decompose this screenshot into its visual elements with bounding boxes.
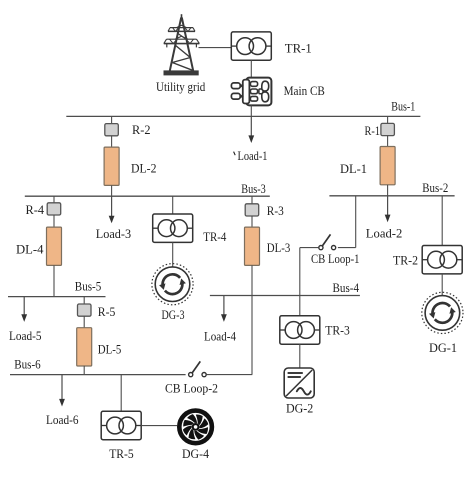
svg-text:Bus-6: Bus-6 — [14, 357, 41, 372]
bus Bus-6 — [10, 374, 186, 376]
wire TR-2 to DG-1 — [441, 274, 443, 296]
wire Bus-3 to R-4 — [53, 196, 55, 202]
svg-text:DL-2: DL-2 — [131, 160, 157, 175]
svg-text:R-2: R-2 — [132, 122, 151, 137]
load arrow Load-2 — [385, 196, 391, 222]
svg-text:TR-5: TR-5 — [109, 446, 134, 461]
distribution line DL-1 — [380, 147, 395, 185]
svg-text:Load-5: Load-5 — [9, 328, 42, 343]
recloser R-4 — [47, 203, 61, 215]
svg-text:TR-3: TR-3 — [325, 323, 350, 338]
wire Bus-6 to TR-5 — [120, 375, 122, 412]
wire R-5 to DL-5 — [83, 316, 85, 327]
generator DG-3 — [152, 264, 193, 305]
svg-text:DL-1: DL-1 — [340, 161, 367, 176]
svg-text:DG-4: DG-4 — [182, 446, 209, 461]
transformer TR-2 — [422, 246, 462, 274]
svg-text:Main CB: Main CB — [284, 83, 326, 98]
wire R-2 to DL-2 — [111, 136, 113, 147]
load arrow Load-6 — [59, 375, 65, 407]
wire CB Loop-1 right lead — [338, 247, 356, 249]
inverter DG-2 — [284, 368, 314, 398]
wire R-3 to DL-3 — [251, 216, 253, 227]
transformer TR-4 — [153, 214, 193, 242]
wire TR-4 to DG-3 — [172, 242, 174, 267]
wire DL-3 to Bus-6 — [251, 265, 253, 374]
wire CB Loop-1 left lead — [300, 247, 319, 249]
svg-text:CB Loop-2: CB Loop-2 — [165, 381, 218, 396]
distribution line DL-4 — [47, 227, 62, 265]
wire DL-2 to Bus-3 — [111, 185, 113, 196]
wire Bus-2 to TR-2 — [441, 196, 443, 246]
svg-text:R-4: R-4 — [26, 202, 45, 217]
wire R-4 to DL-4 — [53, 215, 55, 227]
wire CB Loop-1 to TR-3 — [299, 248, 301, 316]
svg-text:CB Loop-1: CB Loop-1 — [311, 251, 360, 266]
svg-text:TR-1: TR-1 — [285, 40, 312, 55]
wire Bus-3 to TR-4 — [172, 196, 174, 214]
svg-text:Bus-5: Bus-5 — [75, 279, 102, 294]
wire Bus-5 to R-5 — [83, 297, 85, 304]
utility grid source — [164, 14, 200, 75]
wire utility grid to TR-1 — [199, 47, 232, 49]
bus Bus-4 — [210, 295, 360, 297]
load arrow Load-4 — [221, 296, 227, 322]
distribution line DL-3 — [245, 227, 260, 265]
svg-text:Load-3: Load-3 — [96, 226, 131, 241]
svg-text:Bus-1: Bus-1 — [391, 99, 415, 114]
svg-text:Utility grid: Utility grid — [156, 79, 206, 94]
bus Bus-5 — [8, 296, 106, 298]
svg-text:Load-2: Load-2 — [366, 226, 403, 241]
svg-text:DL-4: DL-4 — [16, 241, 44, 256]
wire DL-5 to Bus-6 — [83, 366, 85, 375]
svg-text:Bus-4: Bus-4 — [333, 280, 360, 295]
svg-text:TR-2: TR-2 — [393, 252, 418, 267]
svg-text:TR-4: TR-4 — [203, 229, 226, 244]
wire Bus-1 to R-1 — [387, 116, 389, 123]
tick mark before Load-1 — [234, 152, 236, 156]
bus Bus-1 — [66, 115, 420, 117]
wire TR-1 to Main CB — [250, 60, 252, 77]
wire Bus-1 to R-2 — [111, 116, 113, 123]
switch CB Loop-2 — [189, 361, 207, 376]
transformer TR-5 — [101, 411, 141, 439]
switch CB Loop-1 — [319, 234, 336, 249]
wire TR-3 to DG-2 — [299, 344, 301, 368]
load arrow Load-1 — [248, 116, 254, 143]
wire DL-1 to Bus-2 — [387, 185, 389, 196]
wind turbine DG-4 — [179, 411, 212, 444]
bus Bus-3 — [25, 195, 270, 197]
wire DL-4 to Bus-5 — [53, 265, 55, 296]
svg-text:Load-1: Load-1 — [238, 148, 268, 163]
svg-text:Bus-3: Bus-3 — [241, 181, 265, 196]
load arrow Load-5 — [21, 297, 27, 322]
wire TR-5 to DG-4 — [141, 425, 177, 427]
transformer TR-1 — [231, 32, 271, 60]
svg-text:R-3: R-3 — [267, 203, 284, 218]
transformer TR-3 — [280, 316, 320, 344]
recloser R-2 — [105, 124, 119, 136]
distribution line DL-2 — [104, 147, 119, 185]
generator DG-1 — [422, 292, 463, 333]
wire Main CB to Bus-1 — [250, 105, 252, 116]
svg-text:Load-4: Load-4 — [204, 328, 236, 343]
circuit breaker Main CB — [231, 78, 271, 106]
wire Bus-3 to R-3 — [251, 196, 253, 203]
svg-text:DG-3: DG-3 — [162, 307, 185, 322]
recloser R-5 — [78, 304, 92, 316]
bus Bus-2 — [329, 195, 454, 197]
svg-text:R-1: R-1 — [365, 123, 381, 138]
recloser R-3 — [245, 204, 259, 216]
svg-text:DG-2: DG-2 — [286, 400, 313, 415]
load arrow Load-3 — [109, 196, 115, 223]
wire CB Loop-2 to Bus-6 right corner — [206, 374, 252, 376]
svg-text:R-5: R-5 — [98, 304, 116, 319]
svg-text:DL-5: DL-5 — [98, 341, 122, 356]
svg-text:DG-1: DG-1 — [429, 340, 457, 355]
recloser R-1 — [381, 123, 395, 135]
wire R-1 to DL-1 — [387, 136, 389, 147]
wire Bus-2 to CB Loop-1 — [355, 196, 357, 248]
distribution line DL-5 — [77, 328, 92, 366]
svg-text:Bus-2: Bus-2 — [422, 180, 448, 195]
svg-text:DL-3: DL-3 — [267, 240, 291, 255]
svg-text:Load-6: Load-6 — [46, 412, 79, 427]
